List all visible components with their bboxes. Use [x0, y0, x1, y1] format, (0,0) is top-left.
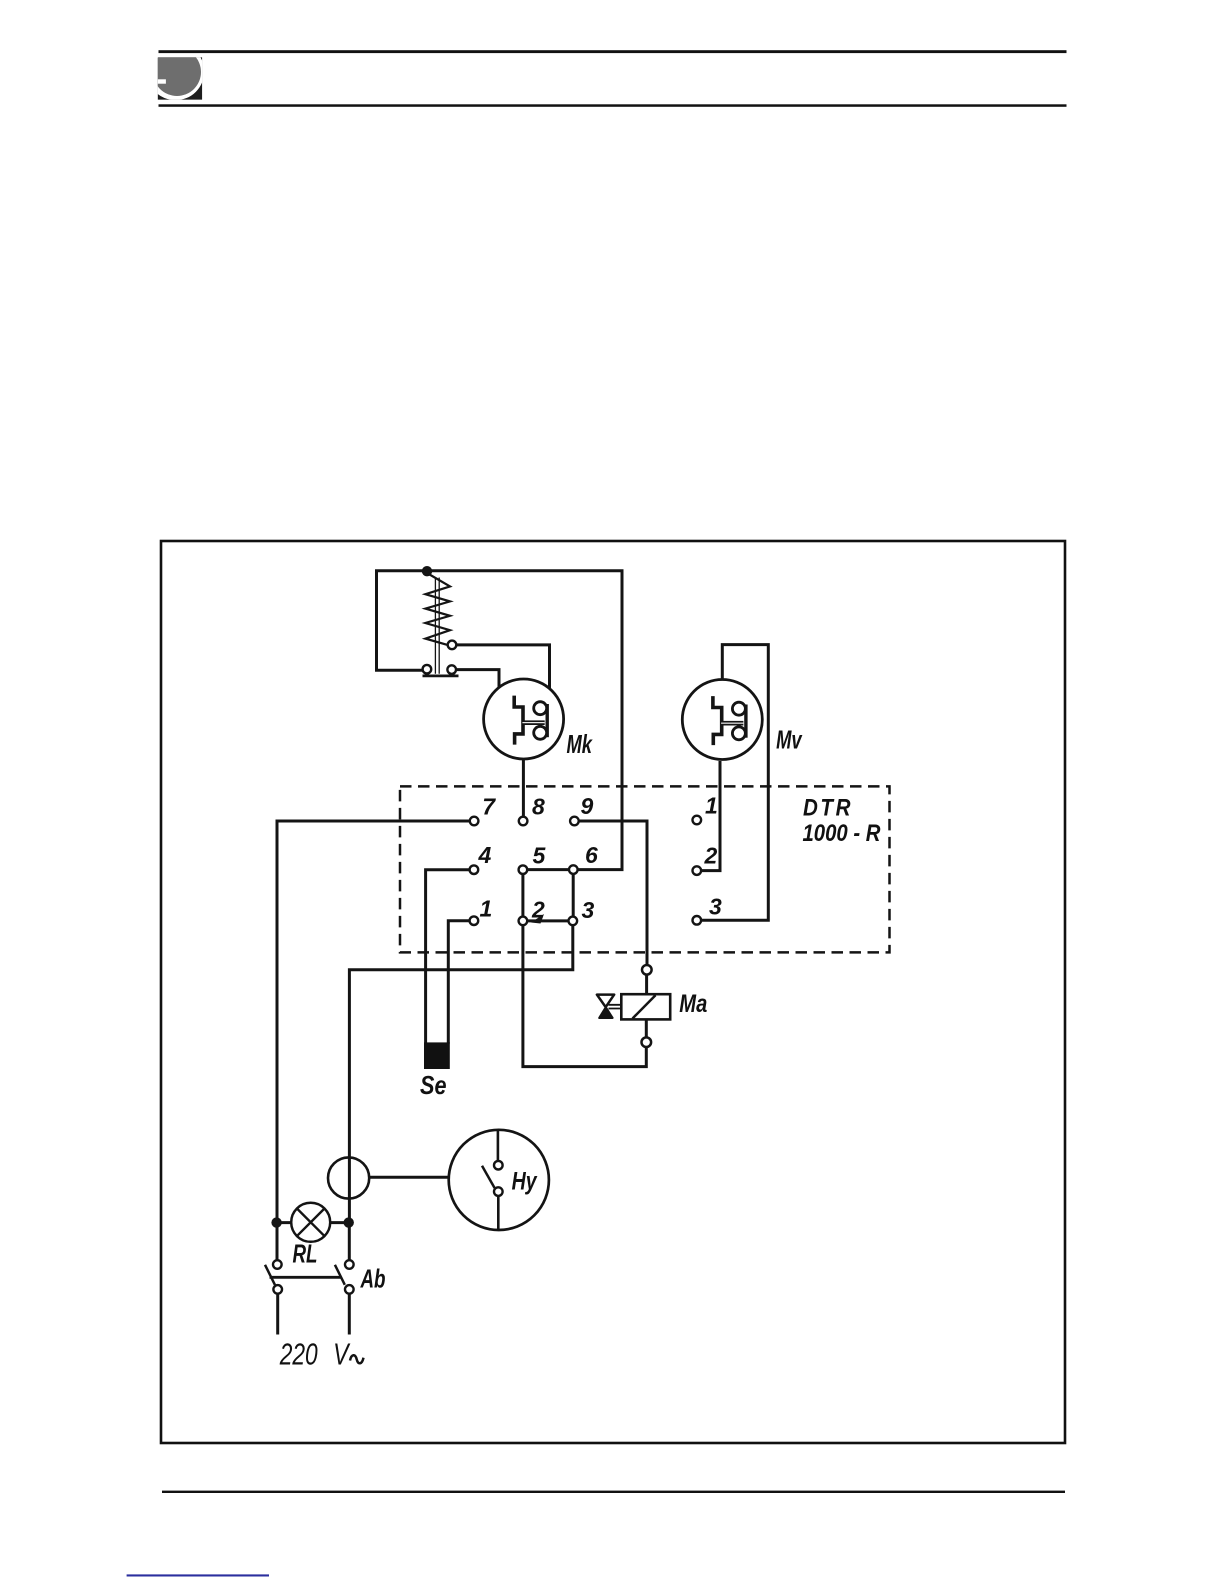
svg-text:Mv: Mv	[776, 725, 803, 755]
svg-text:1: 1	[705, 793, 718, 819]
svg-text:Se: Se	[420, 1070, 447, 1100]
svg-text:1000 - R: 1000 - R	[803, 820, 882, 847]
svg-text:Ab: Ab	[360, 1264, 386, 1294]
svg-text:Hy: Hy	[512, 1168, 538, 1196]
svg-text:RL: RL	[293, 1239, 318, 1269]
svg-text:Mk: Mk	[567, 729, 594, 759]
svg-text:2: 2	[704, 843, 718, 869]
svg-text:V: V	[333, 1337, 351, 1372]
svg-text:4: 4	[478, 842, 492, 868]
svg-text:6: 6	[585, 842, 598, 868]
svg-text:220: 220	[279, 1337, 318, 1372]
svg-text:3: 3	[709, 894, 722, 920]
svg-text:3: 3	[582, 897, 595, 923]
svg-text:1: 1	[480, 896, 493, 922]
svg-text:7: 7	[482, 794, 496, 820]
svg-text:5: 5	[533, 843, 547, 869]
svg-text:Ma: Ma	[679, 990, 707, 1018]
svg-text:DTR: DTR	[803, 795, 853, 822]
svg-text:9: 9	[581, 793, 594, 819]
svg-text:8: 8	[532, 794, 545, 820]
